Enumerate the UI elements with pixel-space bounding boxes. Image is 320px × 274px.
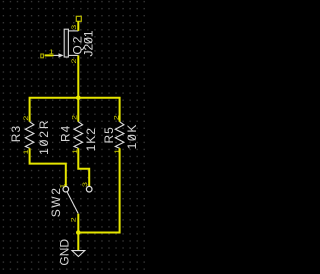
label 3 of J201 — [70, 24, 78, 30]
designator R5 — [102, 126, 116, 143]
designator SW2 — [49, 186, 63, 217]
svg-text:SW2: SW2 — [49, 186, 63, 217]
svg-text:2: 2 — [22, 115, 30, 121]
svg-text:2: 2 — [70, 58, 78, 64]
connector J201 body bar — [64, 29, 68, 57]
junction top rail — [76, 96, 81, 101]
svg-text:1K2: 1K2 — [84, 127, 98, 151]
svg-text:R4: R4 — [58, 125, 72, 142]
wire switch pin2 to ground — [77, 214, 79, 251]
svg-text:3: 3 — [81, 181, 89, 187]
value 10K — [125, 123, 139, 149]
resistor R4 — [74, 122, 83, 149]
svg-text:R3: R3 — [9, 125, 23, 142]
pin 3 line of J201 — [68, 30, 78, 32]
pad pin 3 — [76, 16, 81, 21]
svg-text:J201: J201 — [82, 30, 96, 56]
wire from pad to pin 3 — [77, 21, 79, 31]
svg-text:102R: 102R — [37, 119, 51, 155]
svg-text:GND: GND — [58, 239, 72, 266]
designator Q2 — [71, 35, 85, 55]
svg-text:3: 3 — [70, 24, 78, 30]
pin 1 arrow of J201 — [59, 53, 64, 57]
R3 pin 2 label — [22, 115, 30, 121]
R5 pin 1 label — [113, 148, 121, 154]
SW2 pin 3 label — [81, 181, 89, 187]
label 2 of J201 — [70, 58, 78, 64]
svg-text:10K: 10K — [125, 123, 139, 149]
switch SW2 lever — [67, 192, 78, 214]
wire top rail loop — [30, 98, 120, 122]
svg-text:2: 2 — [112, 115, 120, 121]
net label GND — [58, 239, 72, 266]
pin 2 line of J201 — [68, 54, 78, 56]
label 1 of J201 — [49, 48, 55, 56]
svg-text:2: 2 — [70, 217, 78, 223]
wire J201 pin2 down to top rail junction — [77, 55, 79, 121]
svg-text:R5: R5 — [102, 126, 116, 143]
SW2 pin 2 label — [70, 217, 78, 223]
svg-text:1: 1 — [49, 48, 55, 56]
R4 pin 1 label — [71, 148, 79, 154]
R3 pin 1 label — [22, 149, 30, 155]
junction bottom rail — [76, 230, 81, 235]
ground symbol — [72, 251, 85, 257]
R4 pin 2 label — [71, 114, 79, 120]
wire pin1 pad to pin — [45, 54, 54, 56]
value 102R — [37, 119, 51, 155]
value 1K2 — [84, 127, 98, 151]
wire R5 bottom to bottom rail — [78, 148, 119, 232]
pin 1 line of J201 — [54, 54, 60, 56]
R5 pin 2 label — [112, 115, 120, 121]
designator R3 — [9, 125, 23, 142]
svg-text:2: 2 — [71, 114, 79, 120]
wire R4 bottom to switch pin3 — [78, 148, 89, 186]
switch SW2 contact 1 — [63, 186, 69, 192]
designator R4 — [58, 125, 72, 142]
resistor R5 — [115, 122, 124, 149]
svg-text:1: 1 — [59, 183, 67, 189]
SW2 pin 1 label — [59, 183, 67, 189]
wire R3 bottom to switch pin1 — [30, 148, 66, 186]
switch SW2 contact 3 — [86, 186, 92, 192]
value J201 — [82, 30, 96, 56]
resistor R3 — [25, 122, 34, 149]
pad pin 1 — [41, 54, 44, 58]
